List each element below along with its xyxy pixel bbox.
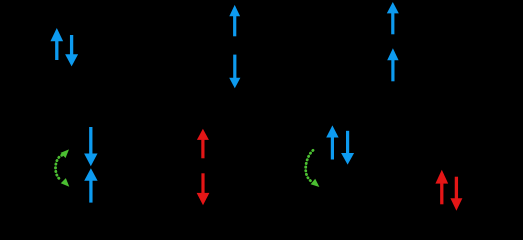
- blue up arrow C1 (top-right stack, upper): [387, 2, 399, 34]
- blue up arrow B1 (top-middle diverging pair, upper): [229, 5, 240, 36]
- blue down arrow A2 (top-left pair, down spin): [65, 35, 78, 66]
- blue up arrow A1 (top-left pair, up spin): [50, 28, 63, 60]
- green dashed curved flip arrow F0 (bottom second pair, single head down): [306, 150, 320, 187]
- red down arrow G2 (bottom-right pair, down spin): [450, 177, 462, 211]
- green dashed curved flip arrow D0 (bottom-left, double-headed): [56, 149, 70, 186]
- red down arrow E2 (bottom-middle diverging pair, lower): [197, 173, 210, 205]
- red up arrow E1 (bottom-middle diverging pair, upper): [197, 129, 209, 159]
- red up arrow G1 (bottom-right pair, up spin): [435, 170, 448, 205]
- blue down arrow D1 (bottom-left pair, down spin): [84, 127, 97, 166]
- blue up arrow D2 (bottom-left pair, up spin): [84, 168, 97, 202]
- blue up arrow F1 (bottom second pair, up spin): [326, 125, 338, 159]
- blue down arrow B2 (top-middle diverging pair, lower): [229, 55, 240, 89]
- blue down arrow F2 (bottom second pair, down spin): [341, 131, 354, 165]
- blue up arrow C2 (top-right stack, lower): [387, 48, 398, 81]
